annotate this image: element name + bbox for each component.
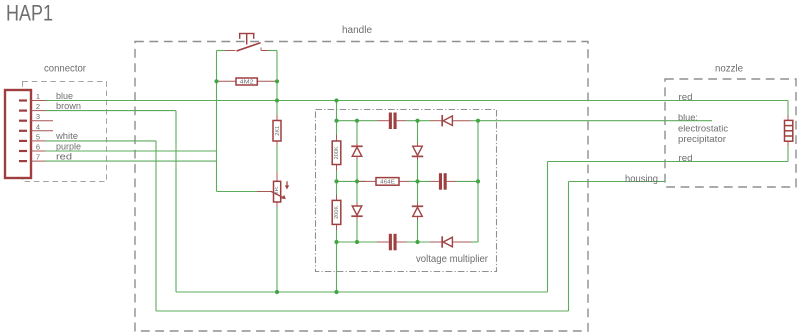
wire switch right — [269, 50, 278, 52]
wire col D — [477, 121, 479, 242]
leads diode D5 row1 — [430, 120, 442, 122]
svg-text:6: 6 — [36, 143, 40, 152]
leads col C diode3 — [417, 143, 419, 146]
junction at 4M2 right — [275, 79, 279, 83]
svg-text:connector: connector — [44, 64, 87, 75]
wire col A top — [336, 101, 338, 136]
wire row1 C1 to C — [407, 120, 431, 122]
leads col B diode2 — [356, 203, 358, 207]
wire pin5 white to x156 — [46, 140, 157, 142]
switch S1 lever — [237, 43, 261, 51]
leads 200K b — [336, 195, 338, 201]
junction blue wire / right column — [275, 98, 279, 102]
wire left column x216 — [216, 51, 218, 192]
leads diode D6 row3 — [430, 241, 442, 243]
junction row2 col C — [415, 179, 419, 183]
trimmer R3 — [274, 181, 281, 202]
wire row2 R6 to C2 — [409, 180, 430, 182]
wire x568 vertical — [568, 182, 570, 312]
junction row2 col D — [476, 179, 480, 183]
diode D6 row3 (cathode left) — [442, 236, 452, 247]
switch S1 actuator — [239, 34, 255, 45]
junction row1 col A — [334, 119, 338, 123]
wire pin2 brown to x176 — [46, 110, 177, 112]
junction row1 col C — [415, 119, 419, 123]
wire y292 run — [176, 291, 548, 293]
leads col C diode4 — [417, 203, 419, 207]
svg-text:voltage multiplier: voltage multiplier — [416, 254, 489, 265]
resistor R7 nozzle — [785, 120, 793, 141]
wire col C middle — [417, 160, 419, 203]
diode D4 col C lower (cathode up) — [412, 206, 423, 216]
wire row1 to nozzle blue — [478, 120, 712, 122]
leads col B diode1 — [356, 144, 358, 147]
wire pin6 purple — [46, 150, 217, 152]
leads 200K a — [336, 135, 338, 141]
svg-text:nozzle: nozzle — [715, 64, 743, 75]
wire pot wiper horizontal — [217, 191, 258, 193]
svg-text:4: 4 — [36, 122, 40, 131]
leads 4M2 — [217, 80, 237, 82]
wire y311 run — [156, 310, 569, 312]
wire row1 D5 to D — [471, 120, 478, 122]
wire x156 vertical — [155, 141, 157, 311]
wire col A middle — [336, 171, 338, 195]
wire row3 D6 to D — [471, 241, 478, 243]
wire right column x277 upper — [276, 51, 278, 115]
svg-text:200K: 200K — [334, 205, 340, 219]
diode D2 col B lower (cathode down) — [351, 206, 362, 216]
connector pins group — [19, 101, 27, 162]
resistor R6 464E — [376, 178, 399, 186]
wire col B lower — [356, 220, 358, 243]
junction row2 col B — [355, 179, 359, 183]
wire switch left — [217, 50, 226, 52]
frame handle (dashed box) — [135, 42, 588, 332]
svg-text:464E: 464E — [380, 180, 395, 186]
wire col A bottom — [336, 230, 338, 292]
wire row2 C2 to D — [457, 180, 479, 182]
frame nozzle (dashed box) — [665, 79, 796, 187]
resistor R2 2K1 — [273, 121, 281, 142]
svg-text:HAP1: HAP1 — [6, 1, 53, 26]
wire row1 A to C1 — [337, 120, 378, 122]
svg-text:precipitator: precipitator — [678, 134, 726, 145]
leads nozzle resistor — [787, 115, 789, 120]
wire row3 A to C3 — [337, 241, 378, 243]
leads 2K1 — [276, 115, 278, 121]
capacitor C2 row2 — [439, 173, 447, 190]
lead switch right contact — [261, 50, 269, 52]
wire col C lower — [417, 220, 419, 242]
lead switch left contact — [226, 50, 236, 52]
connector X1 body — [5, 90, 31, 178]
svg-text:handle: handle — [342, 25, 372, 36]
junction row3 col C — [415, 240, 419, 244]
wire x176 vertical — [175, 111, 177, 292]
lead pot wiper — [257, 191, 271, 193]
junction row1 col D — [476, 119, 480, 123]
wire row3 C3 to C — [407, 241, 431, 243]
capacitor C3 row3 — [389, 234, 397, 251]
wire lower red run y161 — [548, 161, 789, 163]
resistor R5 200K lower — [332, 200, 341, 224]
svg-text:7: 7 — [36, 153, 40, 162]
wire col C upper — [417, 121, 419, 143]
leads cap C3 row3 — [377, 241, 389, 243]
svg-text:200K: 200K — [334, 146, 340, 160]
junction row1 col B — [355, 119, 359, 123]
leads cap C1 row1 — [377, 120, 389, 122]
wire pin1 blue long run to nozzle — [46, 100, 789, 102]
junction row2 col A — [334, 179, 338, 183]
frame voltage multiplier (dash-dot box) — [316, 110, 497, 272]
diode D5 row1 (cathode left) — [442, 115, 452, 126]
svg-text:electrostatic: electrostatic — [678, 123, 728, 134]
red component pin leads — [217, 48, 789, 243]
wires (green nets) — [46, 51, 789, 312]
junction blue wire / col A — [334, 98, 338, 102]
capacitor C1 row1 — [389, 113, 397, 130]
diode D3 col C upper (cathode down) — [412, 146, 423, 156]
svg-text:red: red — [679, 92, 693, 103]
svg-text:4M2: 4M2 — [240, 80, 254, 86]
frame connector (dashed box) — [23, 82, 107, 182]
wire col B middle — [356, 160, 358, 203]
junction bottom run / col A — [334, 290, 338, 294]
wire pot bottom down — [276, 207, 278, 292]
svg-text:5: 5 — [36, 132, 40, 141]
wire col B upper — [356, 121, 358, 144]
wire housing run — [569, 181, 666, 183]
junction row3 col B — [355, 240, 359, 244]
leads R 464E — [357, 180, 376, 182]
junction bottom run / trimmer column — [275, 290, 279, 294]
leads cap C2 row2 — [430, 180, 439, 182]
wire nozzle right drop to resistor top — [787, 101, 789, 116]
junction at 4M2 left — [214, 79, 218, 83]
wire x547 vertical — [547, 162, 549, 293]
svg-text:1: 1 — [36, 92, 40, 101]
svg-text:2K1: 2K1 — [275, 126, 281, 136]
svg-text:red: red — [679, 153, 693, 164]
svg-text:2: 2 — [36, 102, 40, 111]
svg-text:blue:: blue: — [678, 112, 698, 123]
resistor R1 4M2 — [236, 78, 257, 85]
diode D1 col B upper (cathode up) — [351, 146, 362, 156]
resistor R4 200K upper — [332, 141, 341, 165]
wire pin7 red — [46, 160, 217, 162]
junction row3 col A — [334, 240, 338, 244]
wire 2K1 to pot — [276, 145, 278, 172]
svg-text:3: 3 — [36, 112, 40, 121]
wire row2 A to R6 — [337, 180, 367, 182]
leads pot — [276, 172, 278, 181]
wire nozzle resistor bottom to lower red run — [787, 146, 789, 162]
svg-text:housing: housing — [625, 174, 658, 185]
pin numbers 1-7 — [36, 92, 40, 162]
